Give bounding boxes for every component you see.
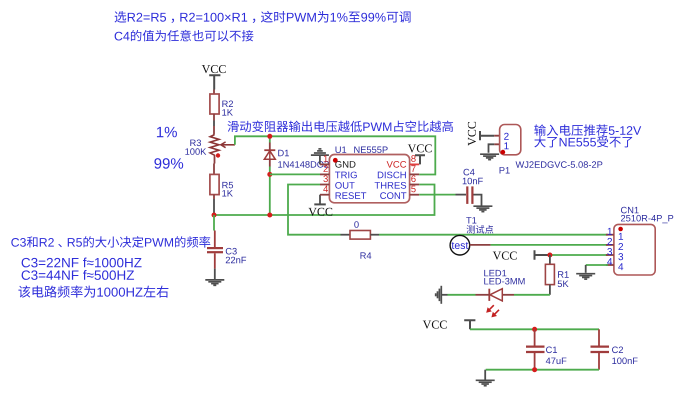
IC U1 NE555P body bbox=[329, 147, 409, 203]
U1 pin stubs left bbox=[320, 155, 329, 194]
power VCC top bbox=[202, 65, 226, 89]
annotation 99% bbox=[154, 158, 183, 169]
wire VCC node to CN1 pin3 bbox=[550, 254, 608, 256]
annotation text input2 bbox=[534, 136, 632, 147]
power VCC at pin8 bbox=[408, 144, 432, 164]
test point T1 bbox=[450, 217, 491, 255]
power VCC at RESET bbox=[308, 195, 332, 216]
annotation text freqD bbox=[18, 286, 168, 298]
resistor R5 bbox=[210, 164, 233, 200]
ground at P1 pin1 bbox=[480, 144, 499, 159]
wire D1 to TRIG node bbox=[269, 167, 271, 216]
annotation text freqB bbox=[22, 258, 142, 268]
capacitor C1 bbox=[526, 329, 566, 369]
wire CN1 pin4 to ground bbox=[586, 264, 608, 266]
junction D1 bottom bbox=[267, 213, 272, 218]
annotation text line2 bbox=[115, 30, 254, 42]
annotation text line1 bbox=[115, 11, 411, 23]
ground bottom rail bbox=[476, 370, 495, 386]
wire LED to ground bbox=[448, 294, 476, 296]
junction C1 top bbox=[532, 327, 537, 332]
ground at CN1 pin4 bbox=[576, 274, 595, 279]
wire wiper to DISCH bbox=[235, 136, 435, 174]
capacitor C4 bbox=[463, 169, 483, 204]
LED LED1 bbox=[476, 270, 525, 317]
wire TRIG bbox=[270, 173, 320, 175]
wire R2 to R3 bbox=[213, 121, 215, 127]
wire CONT to C4 bbox=[419, 194, 455, 196]
node junction R5/C3 bbox=[212, 213, 217, 218]
connector CN1 bbox=[606, 207, 673, 275]
annotation 1% bbox=[157, 127, 177, 137]
wire bottom rail bbox=[486, 369, 599, 371]
resistor R1 bbox=[545, 255, 568, 295]
U1 pin stubs right bbox=[410, 155, 420, 195]
junction C1 bottom bbox=[532, 367, 537, 372]
wire R5 to node bbox=[213, 199, 215, 215]
power VCC at P1 (rotated) bbox=[468, 122, 494, 146]
connector P1 bbox=[494, 125, 602, 174]
ground at LED (sideways) bbox=[436, 286, 448, 304]
power VCC bottom rail bbox=[423, 320, 476, 329]
ground above pin1 bbox=[311, 149, 329, 165]
power VCC at R1 bbox=[493, 250, 550, 259]
diode D1 bbox=[264, 136, 339, 167]
annotation text input1 bbox=[534, 124, 641, 135]
annotation text freqA bbox=[11, 236, 210, 247]
junction D1 top bbox=[267, 134, 272, 139]
resistor R4 bbox=[341, 221, 380, 259]
wire test to CN1 pin2 bbox=[491, 244, 608, 246]
capacitor C2 bbox=[591, 329, 638, 369]
wire node to C3 bbox=[213, 215, 215, 231]
ground at C4 bbox=[473, 195, 492, 212]
wire VCC rail top bbox=[470, 328, 599, 330]
wire R4 to CN1 pin1 bbox=[379, 234, 608, 236]
resistor R2 bbox=[210, 90, 233, 121]
junction R1 top bbox=[547, 253, 552, 258]
wire OUT to R4 bbox=[288, 185, 341, 235]
potentiometer R3 bbox=[185, 126, 235, 164]
annotation text freqC bbox=[22, 270, 134, 280]
capacitor C3 bbox=[207, 231, 246, 269]
wire R1 to LED bbox=[514, 294, 550, 296]
wire node to THRES bbox=[214, 185, 435, 216]
annotation text slider bbox=[228, 121, 454, 132]
label T1 value bbox=[467, 225, 494, 233]
ground below C3 bbox=[205, 269, 224, 286]
junction TRIG bbox=[267, 172, 272, 177]
